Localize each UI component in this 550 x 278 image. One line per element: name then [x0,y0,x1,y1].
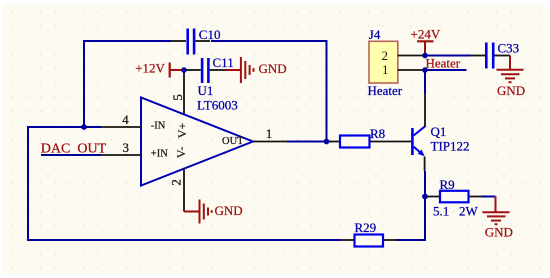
svg-text:+24V: +24V [411,27,441,42]
svg-text:R8: R8 [370,126,385,141]
svg-text:GND: GND [497,83,525,98]
node pin5 junction [181,67,187,73]
node A junction [81,124,87,130]
svg-text:1: 1 [266,126,273,141]
connector J4 pin 1 [398,69,425,71]
resistor R8 pins [330,141,411,143]
capacitor C33 [486,40,519,68]
connector J4 pin 2 [398,55,425,57]
power +24V [411,27,441,56]
svg-text:5.1 2W: 5.1 2W [433,204,479,219]
svg-text:LT6003: LT6003 [197,97,238,112]
resistor R29 [355,220,384,247]
svg-text:Heater: Heater [368,83,403,98]
svg-text:R29: R29 [355,220,377,235]
wire -IN row [28,126,101,128]
wire Heater net stub [425,56,467,71]
svg-text:J4: J4 [369,27,381,42]
svg-text:GND: GND [259,61,287,76]
svg-text:-IN: -IN [151,121,166,132]
capacitor C33 pins [471,55,511,57]
svg-text:GND: GND [215,203,243,218]
ground GND earth at C33 [497,56,526,99]
svg-text:Q1: Q1 [431,124,447,139]
svg-text:3: 3 [123,140,130,155]
op-amp pin 2 [168,169,184,212]
wire top feedback from node A to output column [84,41,327,142]
svg-text:R9: R9 [440,177,455,192]
resistor R9 pins [427,196,482,198]
svg-text:+12V: +12V [135,60,165,75]
wire bottom feedback row [27,239,426,241]
node emitter junction [422,194,428,200]
svg-text:OUT: OUT [222,136,244,147]
op-amp pin 4 [101,112,141,127]
svg-text:2: 2 [168,179,183,186]
resistor R9 [433,177,479,219]
node output junction [324,139,330,145]
svg-text:+IN: +IN [151,149,168,160]
resistor R29 pins [341,239,397,241]
ground GND signal at op-amp pin 2 [184,200,243,224]
svg-text:V+: V+ [175,123,189,139]
op-amp pin 5 [170,70,185,114]
svg-text:5: 5 [170,94,185,101]
op-amp pin 1 [253,126,287,141]
svg-text:C33: C33 [498,40,520,55]
capacitor C11 pins [187,69,201,71]
capacitor C11 [202,55,234,83]
wire R9 to ground [482,196,496,198]
wire emitter node down to bottom row [424,197,426,242]
svg-text:GND: GND [485,225,513,240]
wire +24V row to C33 [425,55,471,57]
svg-text:TIP122: TIP122 [431,138,470,153]
capacitor C10 [188,27,221,55]
node J4 pin1 junction [422,67,428,73]
wire DAC_OUT stub [41,142,107,157]
svg-text:Heater: Heater [426,56,461,71]
svg-text:C10: C10 [199,27,221,42]
svg-text:U1: U1 [198,83,214,98]
svg-text:2: 2 [382,48,389,63]
ground GND earth at R9 [483,197,513,240]
svg-text:DAC OUT: DAC OUT [41,142,107,157]
capacitor C10 pins [171,40,210,42]
svg-text:V-: V- [174,147,188,159]
wire output row [287,141,331,143]
node J4 pin2 junction [422,53,428,59]
op-amp U1 [141,83,253,185]
svg-text:4: 4 [122,112,129,127]
op-amp pin 3 [101,140,141,155]
svg-text:C11: C11 [213,55,234,70]
svg-text:1: 1 [382,62,389,77]
power +12V [135,60,181,77]
transistor Q1 [412,124,469,156]
wire Q1 collector to J4 pin1 [424,69,426,127]
resistor R8 [340,126,385,148]
wire left feedback vertical [27,126,29,241]
connector J4 [368,27,403,98]
ground GND signal at C11 [210,57,287,83]
wire Q1 emitter down [424,157,426,198]
